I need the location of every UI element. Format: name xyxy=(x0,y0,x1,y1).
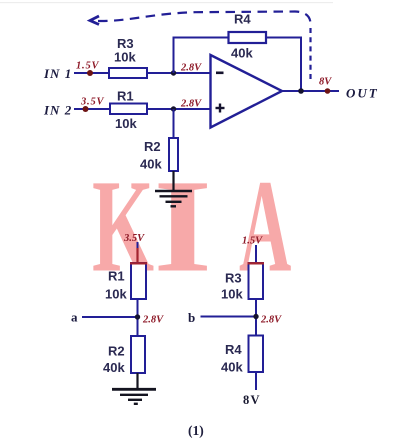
red top edge R3 xyxy=(248,262,265,264)
svg-text:2.8V: 2.8V xyxy=(142,315,164,326)
wire down to R2 xyxy=(173,109,175,138)
red top edge R1 xyxy=(130,262,147,264)
top edge artifact line xyxy=(0,2,333,3)
svg-text:1.5V: 1.5V xyxy=(242,236,263,247)
wire R4 to output xyxy=(266,38,301,92)
svg-text:b: b xyxy=(188,310,195,325)
svg-text:R3: R3 xyxy=(225,271,242,286)
svg-text:I: I xyxy=(154,152,212,299)
dashed feedback arrow xyxy=(90,12,311,84)
svg-text:R1: R1 xyxy=(108,269,125,284)
wire R1 to opamp plus xyxy=(147,108,211,110)
svg-text:R4: R4 xyxy=(225,342,242,357)
svg-text:1.5V: 1.5V xyxy=(76,61,100,72)
svg-text:3.5V: 3.5V xyxy=(123,233,145,244)
node 2.8V junction row2 xyxy=(171,106,176,111)
node a junction xyxy=(135,314,140,319)
svg-text:2.8V: 2.8V xyxy=(180,99,202,110)
op-amp U1 xyxy=(211,55,283,128)
wire R2 to ground (divider a) xyxy=(136,373,138,389)
resistor R3 xyxy=(109,68,147,78)
wire red stub above R1 xyxy=(136,248,138,263)
wire node a xyxy=(82,316,138,318)
node IN1 1.5V dot xyxy=(87,70,93,76)
svg-text:IN 1: IN 1 xyxy=(43,66,72,81)
node output junction xyxy=(298,88,304,94)
resistor R3 (divider b) xyxy=(249,263,264,299)
node 2.8V junction row1 xyxy=(171,70,176,75)
wire 3.5V stub xyxy=(137,242,139,249)
svg-text:a: a xyxy=(71,310,78,325)
resistor R1 xyxy=(110,104,147,115)
svg-text:10k: 10k xyxy=(105,287,127,302)
resistor R4 (divider b) xyxy=(249,336,264,373)
svg-text:10k: 10k xyxy=(114,50,136,65)
ground (top section) xyxy=(155,191,192,206)
svg-text:40k: 40k xyxy=(221,360,243,375)
wire R4 to 8V xyxy=(255,372,257,390)
wire R1 to R2 (divider a) xyxy=(137,299,139,336)
node OUT 8V dot xyxy=(325,88,331,94)
wire opamp output xyxy=(281,90,339,92)
opamp plus pin xyxy=(216,104,225,113)
wire feedback up xyxy=(174,38,229,74)
wire R3 to opamp minus xyxy=(147,72,211,74)
wire node b xyxy=(201,316,257,318)
svg-text:R2: R2 xyxy=(108,344,125,359)
resistor R2 (divider a) xyxy=(131,336,145,373)
svg-text:2.8V: 2.8V xyxy=(180,63,202,74)
node b junction xyxy=(253,314,258,319)
svg-text:40k: 40k xyxy=(140,157,162,172)
node IN2 3.5V dot xyxy=(83,106,89,112)
svg-text:IN 2: IN 2 xyxy=(43,103,72,118)
wire 1.5V stub xyxy=(255,245,257,263)
wire IN1 to R3 xyxy=(74,72,110,74)
svg-text:3.5V: 3.5V xyxy=(80,97,105,108)
svg-text:OUT: OUT xyxy=(346,86,379,101)
resistor R4 xyxy=(229,32,267,43)
resistor R2 xyxy=(169,138,178,171)
svg-text:8V: 8V xyxy=(243,393,261,407)
svg-text:10k: 10k xyxy=(221,287,243,302)
svg-text:R2: R2 xyxy=(144,139,161,154)
wire R2 to ground xyxy=(172,171,174,191)
resistor R1 (divider a) xyxy=(131,263,146,299)
ground (divider a) xyxy=(112,389,156,404)
svg-text:10k: 10k xyxy=(115,116,137,131)
svg-text:R4: R4 xyxy=(234,12,251,27)
svg-text:R1: R1 xyxy=(117,89,134,104)
svg-text:(1): (1) xyxy=(188,423,204,438)
svg-text:8V: 8V xyxy=(319,77,332,88)
svg-text:A: A xyxy=(239,154,291,301)
opamp minus pin xyxy=(216,72,224,75)
wire IN2 to R1 xyxy=(74,108,111,110)
svg-text:40k: 40k xyxy=(231,46,253,61)
svg-text:40k: 40k xyxy=(103,360,125,375)
wire R3 to R4 (divider b) xyxy=(255,299,257,336)
svg-text:2.8V: 2.8V xyxy=(260,315,282,326)
